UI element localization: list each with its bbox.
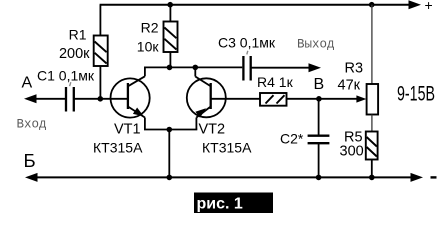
potentiometer R3 [367,84,379,115]
node R5 bottom junction [369,175,375,181]
node C3 tick mark [247,51,248,55]
capacitor C2 [308,136,330,144]
wire VT1 collector riser [144,67,146,76]
svg-text:+: + [425,0,433,13]
wire R2 top lead [169,5,171,22]
wire R3 to R5 [371,115,373,132]
svg-text:КТ315А: КТ315А [202,140,252,156]
wire VT2 base to R4 [211,98,260,100]
svg-text:А: А [22,75,33,92]
capacitor C1 [66,87,74,112]
transistor VT1 [111,76,150,117]
svg-text:9-15В: 9-15В [397,83,435,106]
wire R5 bottom lead [371,160,373,178]
resistor R4 [260,93,287,106]
wire bottom rail [34,176,414,178]
wire emitter to bottom rail [168,130,170,178]
svg-text:10к: 10к [137,39,160,55]
node C2 bottom junction [316,175,322,181]
node junction R1/base A-line [98,96,104,102]
label minus [431,176,437,178]
svg-text:R2: R2 [141,20,159,36]
capacitor C3 [243,56,250,81]
node C1 tick mark [70,82,71,86]
wire C2 to bottom rail [318,143,320,177]
wire VT2 collector riser [194,67,196,76]
svg-text:R3: R3 [345,61,364,77]
transistor VT2 [187,77,226,118]
svg-text:200к: 200к [59,46,90,62]
svg-text:VT2: VT2 [199,122,226,138]
svg-text:R4 1к: R4 1к [257,74,294,90]
svg-text:В: В [314,76,325,93]
wire emitter node line [144,129,197,131]
svg-text:С3 0,1мк: С3 0,1мк [218,35,276,51]
node R2 top junction [167,2,173,8]
svg-text:Выход: Выход [297,38,335,52]
wire output line [251,67,310,69]
node emitter bottom rail junction [167,175,173,181]
svg-text:Б: Б [24,150,36,171]
wire VT1 emitter drop [144,118,146,130]
node emitter junction [167,127,173,133]
wire A line left of C1 [33,98,66,100]
node R3 wiper arrowhead [356,95,366,102]
wire R1 bottom lead [99,66,101,99]
node A input arrowhead [24,94,37,103]
node minus arrowhead [411,173,424,182]
node R2/collector junction [167,65,173,71]
svg-text:КТ315А: КТ315А [93,140,143,156]
wire top supply rail [100,4,412,6]
wire R3 feed from top rail [371,5,373,84]
svg-text:47к: 47к [338,78,361,94]
node R3 top junction [369,2,375,8]
caption figure box [194,193,273,214]
svg-text:рис. 1: рис. 1 [197,196,243,213]
svg-text:300: 300 [340,144,364,160]
wire C1 to VT1 base [74,98,128,100]
svg-text:C2*: C2* [280,131,304,147]
node VT2 collector junction [193,65,199,71]
svg-text:Вход: Вход [17,118,47,132]
wire B to R3 wiper [319,98,358,100]
node output arrowhead [309,63,322,72]
wire collector node line [144,66,242,68]
node B junction [316,96,322,102]
wire R2 bottom lead [169,52,171,67]
resistor R1 [94,36,108,67]
node plus arrowhead [409,0,422,9]
svg-text:VT1: VT1 [114,122,141,138]
svg-text:С1 0,1мк: С1 0,1мк [37,68,95,84]
resistor R5 [366,132,378,160]
resistor R2 [164,22,178,53]
wire R4 right lead [287,98,319,100]
svg-text:R1: R1 [69,27,87,43]
wire B to C2 [318,99,320,135]
node B output arrowhead left [25,173,38,182]
wire VT2 emitter drop [195,118,197,130]
wire R1 top lead [99,5,101,36]
